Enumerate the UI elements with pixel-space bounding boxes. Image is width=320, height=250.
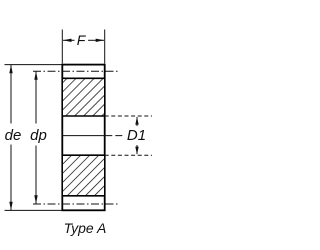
svg-text:dp: dp [30,127,47,144]
dimension dp line and arrows [34,71,37,204]
F extension line left [61,30,63,64]
label dp [30,127,47,144]
gear body outline [62,65,104,211]
svg-text:de: de [5,127,22,144]
dimension de line and arrows [9,65,12,210]
svg-text:Type A: Type A [64,220,107,236]
dimension D1 arrows [135,117,138,155]
bore axis centerline (dash-dot) [62,135,152,137]
bore hidden line bottom (dashed, to D1) [105,154,152,156]
de extension line top [5,64,63,66]
svg-text:D1: D1 [127,127,146,144]
F extension line right [104,30,106,64]
top hatched rim section [62,78,104,116]
bore hidden line top (dashed, to D1) [105,115,152,117]
label D1 [127,127,146,144]
bottom pitch line (dash-dot) [33,203,118,205]
bottom hatched rim section [62,155,104,196]
caption Type A [64,220,107,236]
label de [5,127,22,144]
svg-text:F: F [77,32,87,48]
top pitch line (dash-dot) [33,70,118,72]
dimension F line and arrows [63,39,104,42]
de extension line bottom [5,209,63,211]
label F [77,32,87,48]
